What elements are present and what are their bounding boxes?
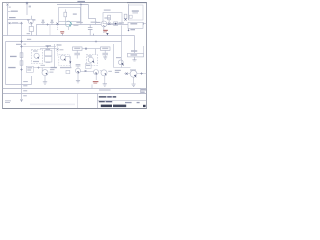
label on drop bbox=[103, 30, 108, 31]
ground G4 bbox=[131, 84, 135, 86]
sheet background bbox=[0, 0, 150, 111]
wire: L1 drop into RB3 bbox=[143, 46, 145, 53]
transistor Q10 bbox=[101, 70, 107, 76]
wire: stub below Q1 bbox=[67, 27, 69, 30]
label above Q11 bbox=[130, 69, 136, 70]
resistor box RB1 bbox=[73, 47, 83, 51]
wire: Q7 emitter down bbox=[44, 76, 46, 82]
left margin small text bbox=[5, 100, 11, 101]
wire: L1 right edge drop bbox=[134, 36, 136, 54]
wire: vertical at x=88.5 bbox=[89, 5, 96, 25]
label above wire bbox=[76, 22, 82, 23]
wire: node B to column bbox=[11, 22, 22, 24]
label above L2 bbox=[27, 39, 31, 40]
wire: Q10 down bbox=[104, 76, 106, 84]
wire: vertical divider x=54.8 bbox=[54, 44, 56, 68]
VCC rail bbox=[57, 4, 89, 6]
wire: Q8 down bbox=[77, 73, 79, 80]
label box LB3 bbox=[85, 64, 91, 69]
label NET2 bbox=[9, 17, 16, 18]
label below L2 bbox=[57, 44, 62, 45]
label above L1 right bbox=[27, 33, 30, 34]
diode D2 above box bbox=[51, 20, 54, 25]
faint row above title bbox=[99, 89, 111, 90]
wire: dashed partition x=57.5 bbox=[57, 44, 59, 56]
wire to Q7 bbox=[42, 68, 43, 71]
node K: plus bbox=[20, 68, 22, 70]
title text row 1 bbox=[99, 96, 107, 98]
label value red 2 bbox=[93, 81, 99, 82]
label below S2 bbox=[46, 62, 50, 63]
node Q: x junction bbox=[85, 48, 87, 50]
node T: x junction bbox=[85, 70, 87, 72]
wire into Q10 bbox=[100, 70, 102, 72]
label pin marks bbox=[9, 7, 11, 8]
box U2 bbox=[103, 13, 122, 24]
small box S2 bbox=[45, 57, 52, 62]
arrow into L1 bbox=[106, 33, 108, 35]
transistor Q3 bbox=[34, 53, 39, 58]
capacitor C4 bbox=[102, 53, 108, 55]
node G: x junction bbox=[108, 23, 110, 25]
label above box U2 bbox=[104, 10, 111, 11]
capacitor C6 plates bbox=[76, 64, 81, 66]
node M: plus on right wire bbox=[140, 72, 142, 74]
dashed box T6 bbox=[87, 55, 98, 66]
wire: drop x=70.3 bbox=[69, 56, 71, 68]
wire: box right edge bbox=[49, 25, 51, 36]
wire: U4 bottom stub bbox=[128, 28, 130, 30]
ground G5 below RB3 bbox=[132, 57, 136, 61]
label right of Q1 bbox=[73, 25, 78, 26]
pin labels along column bbox=[23, 81, 28, 82]
title text row 2 bbox=[99, 101, 105, 102]
wire: x=27 stub bbox=[26, 3, 28, 15]
wire: drop below Q2 bbox=[103, 27, 105, 33]
transistor Q4 bbox=[60, 55, 65, 60]
label above RB3 bbox=[131, 50, 137, 51]
right small labels bbox=[125, 102, 132, 103]
logo cell left edge bbox=[77, 94, 79, 109]
logo cell right edge bbox=[97, 94, 99, 109]
label bars in S1 bbox=[46, 45, 52, 46]
page number dot bbox=[143, 105, 146, 107]
label in left box bbox=[16, 44, 21, 45]
wire: right row bbox=[124, 73, 147, 75]
label above Q2 bbox=[104, 17, 110, 18]
component with dot bbox=[114, 22, 118, 26]
resistor R3 in box bbox=[108, 15, 111, 20]
transistor Q2 bbox=[101, 21, 107, 27]
resistor R5 on column bbox=[20, 53, 23, 58]
box U3 tall bbox=[129, 5, 144, 20]
label box LB4 bbox=[115, 70, 121, 71]
label NET1 bbox=[11, 11, 18, 12]
capacitor C1 in box bbox=[73, 13, 77, 14]
transistor Q8 bbox=[76, 68, 81, 73]
wire: stub to right border bbox=[143, 23, 147, 25]
transistor Q9 bbox=[94, 70, 99, 75]
label right of node R bbox=[59, 49, 63, 50]
label right of node D bbox=[29, 6, 31, 8]
label box LB1 bbox=[26, 66, 33, 72]
wire: L2 left edge drop bbox=[5, 42, 7, 85]
wire: full-width line above title strip bbox=[3, 88, 147, 90]
bottom border emphasis bbox=[3, 108, 147, 110]
label lower bbox=[27, 19, 35, 20]
node S: plus on feed wire bbox=[37, 67, 39, 69]
label rows mid bbox=[51, 67, 57, 68]
bus wires right of T5 bbox=[22, 46, 57, 48]
transistor Q7 bbox=[42, 70, 48, 76]
resistor R4 left of U3 bbox=[124, 14, 127, 18]
transistor Q5 bbox=[88, 57, 93, 62]
label in T5 bbox=[33, 50, 38, 51]
label right of column bbox=[24, 44, 27, 45]
small cell text bbox=[141, 89, 146, 90]
wire: drop x=95.5 bbox=[95, 49, 97, 55]
node I: junction dot bbox=[128, 30, 130, 32]
label in U4 bbox=[130, 23, 137, 24]
label VCC bbox=[77, 1, 85, 3]
label above feed wire bbox=[41, 65, 46, 66]
wire below resistor bbox=[31, 32, 33, 36]
ground G3 bbox=[103, 84, 107, 86]
node F: plus on VCC bbox=[80, 3, 82, 5]
small box S1 bbox=[45, 50, 52, 56]
label value red bbox=[60, 31, 64, 32]
label above Q6 bbox=[116, 57, 121, 58]
node B bbox=[9, 22, 11, 24]
wire: left box bottom bbox=[6, 84, 32, 86]
wire: title strip top line bbox=[3, 93, 147, 95]
label bottom of T5 bbox=[33, 61, 39, 62]
title row line bbox=[98, 100, 147, 102]
label below U4 bbox=[130, 29, 135, 30]
node N: plus at L2 crossing bbox=[20, 40, 22, 42]
wire: bottom row feed bbox=[33, 67, 56, 69]
ground G1 bbox=[103, 57, 107, 59]
node J: plus on column bbox=[20, 45, 22, 47]
capacitor C2 on main wire bbox=[89, 25, 91, 36]
node H: x below R4 bbox=[124, 18, 126, 20]
wire: Q4 collector right bbox=[66, 55, 71, 57]
wire: horizontal from rail bbox=[8, 19, 32, 21]
wire: VCC drop bbox=[80, 5, 82, 25]
wire: Q11 down bbox=[133, 77, 135, 84]
transistor Q1 (teal) bbox=[65, 21, 71, 27]
wire: drop x=121.6 to L2 bbox=[121, 25, 123, 67]
node D: top small x bbox=[26, 2, 28, 4]
wire: base bus bbox=[81, 71, 94, 73]
arrow on drop bbox=[69, 61, 71, 63]
capacitor C3 bbox=[74, 53, 80, 55]
wire: long horizontal bus L2 bbox=[6, 41, 122, 43]
node C: plus junction bbox=[20, 22, 23, 25]
label left of Q2 bbox=[96, 22, 101, 23]
wire: RB1 right to next bbox=[82, 48, 101, 50]
wire: left vertical rail bbox=[7, 5, 9, 36]
label above C2 bbox=[91, 22, 97, 23]
transistor Q11 bbox=[130, 70, 137, 77]
title big name bbox=[101, 105, 112, 108]
dashed box T5 bbox=[32, 50, 43, 64]
label in U3 bbox=[132, 10, 139, 11]
label right of Q7 bbox=[50, 72, 54, 73]
wire: stub up at x=31.5 bbox=[31, 16, 33, 27]
transistor Q6 bbox=[118, 60, 123, 65]
node P: junction on wire bbox=[47, 23, 49, 25]
node A: left input junction bbox=[7, 4, 9, 6]
tick above L1 b bbox=[93, 34, 95, 36]
resistor box RB3 bbox=[128, 53, 144, 57]
diode D1 above box bbox=[42, 20, 45, 25]
box U4 below U3 bbox=[128, 22, 143, 28]
wire: stub up from y=88.8 bbox=[91, 85, 93, 89]
cell divider vertical x=140 bbox=[140, 89, 142, 94]
small component bbox=[66, 70, 70, 73]
tick above L1 bbox=[62, 34, 64, 36]
wire: column end arrow bbox=[20, 99, 22, 101]
dashed box T7 bbox=[59, 55, 70, 66]
transistor Q0 bbox=[28, 19, 33, 24]
resistor box RB2 bbox=[101, 47, 111, 51]
resistor R-left on stub bbox=[29, 27, 33, 32]
wire: vertical x=113.6 bbox=[113, 44, 115, 68]
label in T6 bbox=[88, 55, 93, 56]
sheet border frame bbox=[3, 3, 147, 109]
node U: plus on L2 bbox=[95, 40, 97, 42]
node L: plus on bus bbox=[46, 45, 48, 47]
node O: x on right wire bbox=[126, 73, 128, 75]
label right bbox=[119, 22, 124, 23]
label below feed wire bbox=[50, 69, 55, 70]
wire below RB2 bbox=[104, 50, 106, 53]
wire: long horizontal bus L1 bbox=[3, 35, 135, 37]
wire below RB1 bbox=[76, 50, 78, 53]
label near node B bbox=[12, 22, 18, 23]
wire: main left column vertical bbox=[21, 23, 23, 101]
ground G6 bbox=[76, 81, 80, 83]
wire: Q9 down bbox=[95, 75, 97, 81]
ground G2 bbox=[43, 82, 47, 84]
wire: dashes down from node E bbox=[57, 25, 59, 31]
label right of Q10 bbox=[108, 71, 112, 72]
wire: dark top border segment bbox=[127, 2, 147, 4]
faint strip text left bbox=[30, 104, 75, 106]
resistor R6 on column bbox=[20, 61, 23, 65]
node R: x junction cell B bbox=[57, 49, 59, 51]
label left of column bbox=[10, 56, 17, 57]
label left lower bbox=[8, 67, 15, 68]
box U1 bbox=[59, 8, 81, 22]
resistor R2 in box bbox=[64, 9, 66, 21]
node E: x junction on wire bbox=[56, 23, 58, 25]
main top box bbox=[37, 25, 129, 36]
wire: left box right edge bbox=[31, 76, 33, 85]
